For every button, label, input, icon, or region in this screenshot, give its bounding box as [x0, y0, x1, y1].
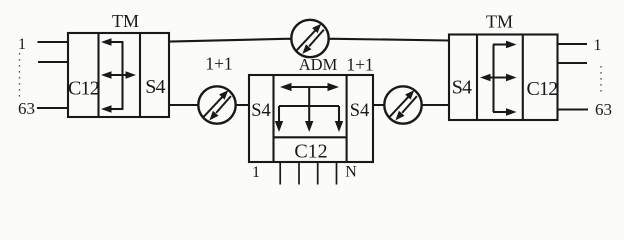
- svg-text:C12: C12: [294, 141, 327, 163]
- svg-text:1+1: 1+1: [346, 55, 373, 75]
- svg-text:1+1: 1+1: [205, 54, 232, 74]
- svg-text:1: 1: [252, 164, 260, 181]
- svg-text:TM: TM: [486, 12, 513, 32]
- svg-text:S4: S4: [251, 101, 271, 121]
- svg-text:N: N: [345, 164, 357, 181]
- svg-text:S4: S4: [145, 76, 165, 98]
- svg-text:1: 1: [18, 36, 26, 53]
- svg-text:63: 63: [18, 99, 35, 118]
- svg-text:1: 1: [594, 37, 602, 54]
- svg-text:C12: C12: [68, 78, 99, 100]
- svg-text:S4: S4: [350, 101, 370, 121]
- svg-text:S4: S4: [452, 77, 472, 99]
- svg-text:TM: TM: [112, 11, 139, 31]
- svg-text:C12: C12: [527, 78, 558, 100]
- svg-text:ADM: ADM: [299, 55, 338, 74]
- svg-text:63: 63: [595, 100, 612, 119]
